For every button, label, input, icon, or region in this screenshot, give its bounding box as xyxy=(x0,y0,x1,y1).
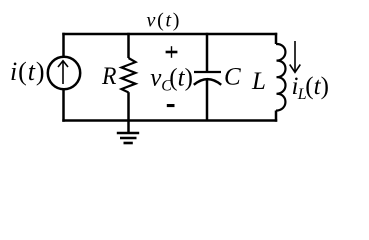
wire resistor branch top xyxy=(127,33,130,58)
svg-text:C: C xyxy=(224,64,241,91)
wire inductor branch bottom xyxy=(275,111,278,122)
wire capacitor branch top xyxy=(206,33,209,71)
resistor R zigzag xyxy=(122,58,136,92)
wire left branch xyxy=(62,33,65,122)
ground xyxy=(117,133,139,143)
inductor current arrow xyxy=(290,41,301,72)
current source arrow xyxy=(58,61,68,84)
capacitor C top plate xyxy=(194,71,221,73)
wire ground stub xyxy=(127,121,130,133)
svg-text:i(t): i(t) xyxy=(10,57,45,86)
svg-text:(t): (t) xyxy=(169,64,193,91)
label vC(t) capacitor voltage xyxy=(150,64,193,94)
current source I1 xyxy=(48,57,80,89)
wire bottom node xyxy=(62,119,277,122)
svg-text:R: R xyxy=(101,63,116,90)
svg-text:L: L xyxy=(251,68,266,95)
wire top node xyxy=(62,33,277,36)
label plus sign xyxy=(166,46,178,58)
label minus sign xyxy=(167,104,175,107)
capacitor C bottom curved plate xyxy=(194,79,221,85)
wire inductor branch top xyxy=(275,33,278,44)
inductor L coil xyxy=(276,44,286,111)
svg-text:(t): (t) xyxy=(305,73,329,100)
wire capacitor branch bottom xyxy=(206,80,209,121)
wire resistor branch bottom xyxy=(127,92,130,120)
svg-text:v(t): v(t) xyxy=(147,10,182,32)
label iL(t) inductor current xyxy=(292,73,329,103)
